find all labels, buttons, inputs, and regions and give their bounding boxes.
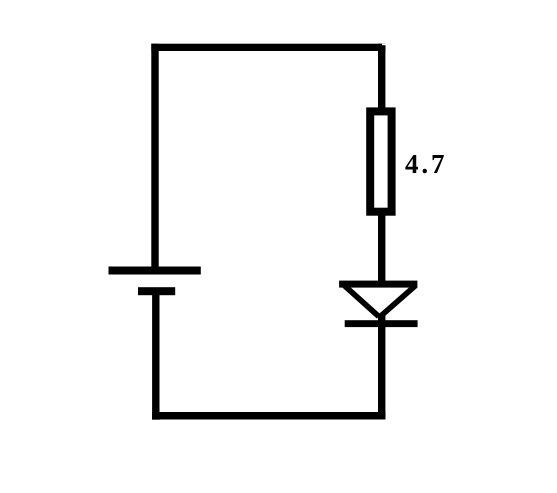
- wire: left vertical (battery - plate down to bottom wire): [152, 295, 159, 420]
- svg-text:4.7: 4.7: [405, 149, 447, 179]
- wire: left vertical (top wire down to battery top plate): [151, 44, 158, 268]
- wire: right vertical middle (resistor bottom to diode anode): [378, 210, 385, 284]
- battery: [109, 267, 201, 296]
- wire: top horizontal (battery + to resistor top): [151, 44, 385, 51]
- resistor R (body): [370, 111, 391, 211]
- diode (anode triangle + cathode bar): [339, 281, 418, 328]
- wire: right vertical lower (diode cathode to bottom wire): [378, 314, 385, 420]
- wire: bottom horizontal (battery - to diode cathode): [152, 412, 385, 420]
- wire: right vertical upper (top wire down to resistor): [378, 44, 385, 111]
